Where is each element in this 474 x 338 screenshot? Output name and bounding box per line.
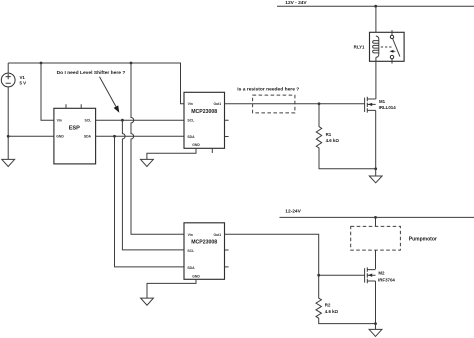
dashed box resistor placeholder [253,95,295,113]
svg-text:IRLL014: IRLL014 [379,105,397,110]
ground MCP23008 U2 [141,159,154,166]
transistor M1 IRLL014 [365,97,397,169]
svg-text:MCP23008: MCP23008 [191,240,217,246]
dashed box Pumpmotor [351,226,401,250]
IC U1 ESP module [54,104,96,164]
wire Vcc drop to MCP23008 U3 Vin (hops over SCL and SDA) [131,63,184,234]
svg-text:SDA: SDA [84,135,92,139]
node junction GND rail tee [7,135,10,138]
svg-text:Pumpmotor: Pumpmotor [409,236,437,242]
svg-text:IRF3704: IRF3704 [378,277,395,282]
ground V1 [2,159,15,166]
wire ESP GND [8,135,54,137]
svg-text:SDA: SDA [187,266,195,270]
svg-text:12-24V: 12-24V [285,208,301,214]
wire SCL ESP to MCP23008 U2 [96,119,184,121]
svg-text:SDA: SDA [187,135,195,139]
svg-text:Do I need Level Shifter here ?: Do I need Level Shifter here ? [57,70,126,76]
annotation arrow to I2C bus [100,77,120,113]
svg-text:R1: R1 [326,132,332,137]
IC U3 MCP23008 [184,223,229,279]
svg-text:5 V: 5 V [20,80,27,85]
resistor R1 4.6 kOhm [316,104,375,169]
svg-text:GND: GND [56,135,64,139]
wire 5V top rail from V1 to MCP23008 U2 Vin [8,63,184,104]
wire rail to relay coil [375,6,377,36]
wire MCP23008 U3 Out1 to M2 gate [225,234,365,275]
svg-text:M2: M2 [378,270,385,275]
node R1 tee [318,102,321,105]
wire ESP Vin drop [41,63,54,120]
svg-text:GND: GND [192,143,200,147]
node M1 source / R1 / ground tee [374,167,377,170]
wire MCP23008 U2 Out1 to M1 gate [225,103,365,105]
node relay branch [374,5,377,8]
IC U2 MCP23008 [184,92,229,153]
svg-text:SCL: SCL [187,119,194,123]
svg-text:SCL: SCL [187,249,194,253]
svg-text:GND: GND [192,274,200,278]
svg-text:Vin: Vin [188,233,193,237]
svg-text:Is a resistor needed here ?: Is a resistor needed here ? [237,86,299,92]
svg-text:V1: V1 [20,75,26,80]
wire SDA ESP to MCP23008 U2 [96,135,184,137]
wire MCP23008 U3 GND to ground [147,279,196,298]
node SDA branch [113,135,116,138]
svg-text:Out1: Out1 [213,233,221,237]
node junction 5V rail to ESP Vin branch [40,62,43,65]
wire SDA drop to MCP23008 U3 [115,136,185,267]
node pump motor branch [374,216,377,219]
node M2 source / R2 / ground tee [374,322,377,325]
node R2 tee [317,274,320,277]
svg-text:RLY1: RLY1 [354,45,365,50]
resistor R2 4.6 kOhm [316,275,375,323]
svg-text:Vin: Vin [188,102,193,106]
wire V1 to ground [7,87,9,159]
wire SCL drop to MCP23008 U3 (hop over SDA) [122,120,184,250]
svg-text:R2: R2 [325,303,331,308]
svg-text:ESP: ESP [69,125,80,131]
svg-text:12V - 24V: 12V - 24V [285,0,307,6]
12-24V lower power rail [280,208,474,217]
transistor M2 IRF3704 [365,267,396,323]
svg-text:Out1: Out1 [213,102,221,106]
voltage source V1 5V [1,63,26,87]
svg-text:MCP23008: MCP23008 [191,109,217,115]
svg-text:Vin: Vin [57,118,62,122]
ground MCP23008 U3 [141,298,154,305]
svg-text:4.6 kΩ: 4.6 kΩ [326,138,340,143]
wire rail to M2 drain [375,217,377,269]
svg-text:4.6 kΩ: 4.6 kΩ [325,309,339,314]
wire MCP23008 U2 GND to ground [147,148,196,159]
wire relay to M1 drain [375,57,377,99]
12V - 24V power rail [277,0,474,6]
node junction 5V rail to I2C bus Vcc branch [130,62,133,65]
relay RLY1 [354,30,404,64]
svg-text:M1: M1 [379,99,386,104]
svg-text:SCL: SCL [85,118,92,122]
ground M1 [369,169,382,183]
ground M2 [369,324,382,337]
node SCL branch [121,119,124,122]
